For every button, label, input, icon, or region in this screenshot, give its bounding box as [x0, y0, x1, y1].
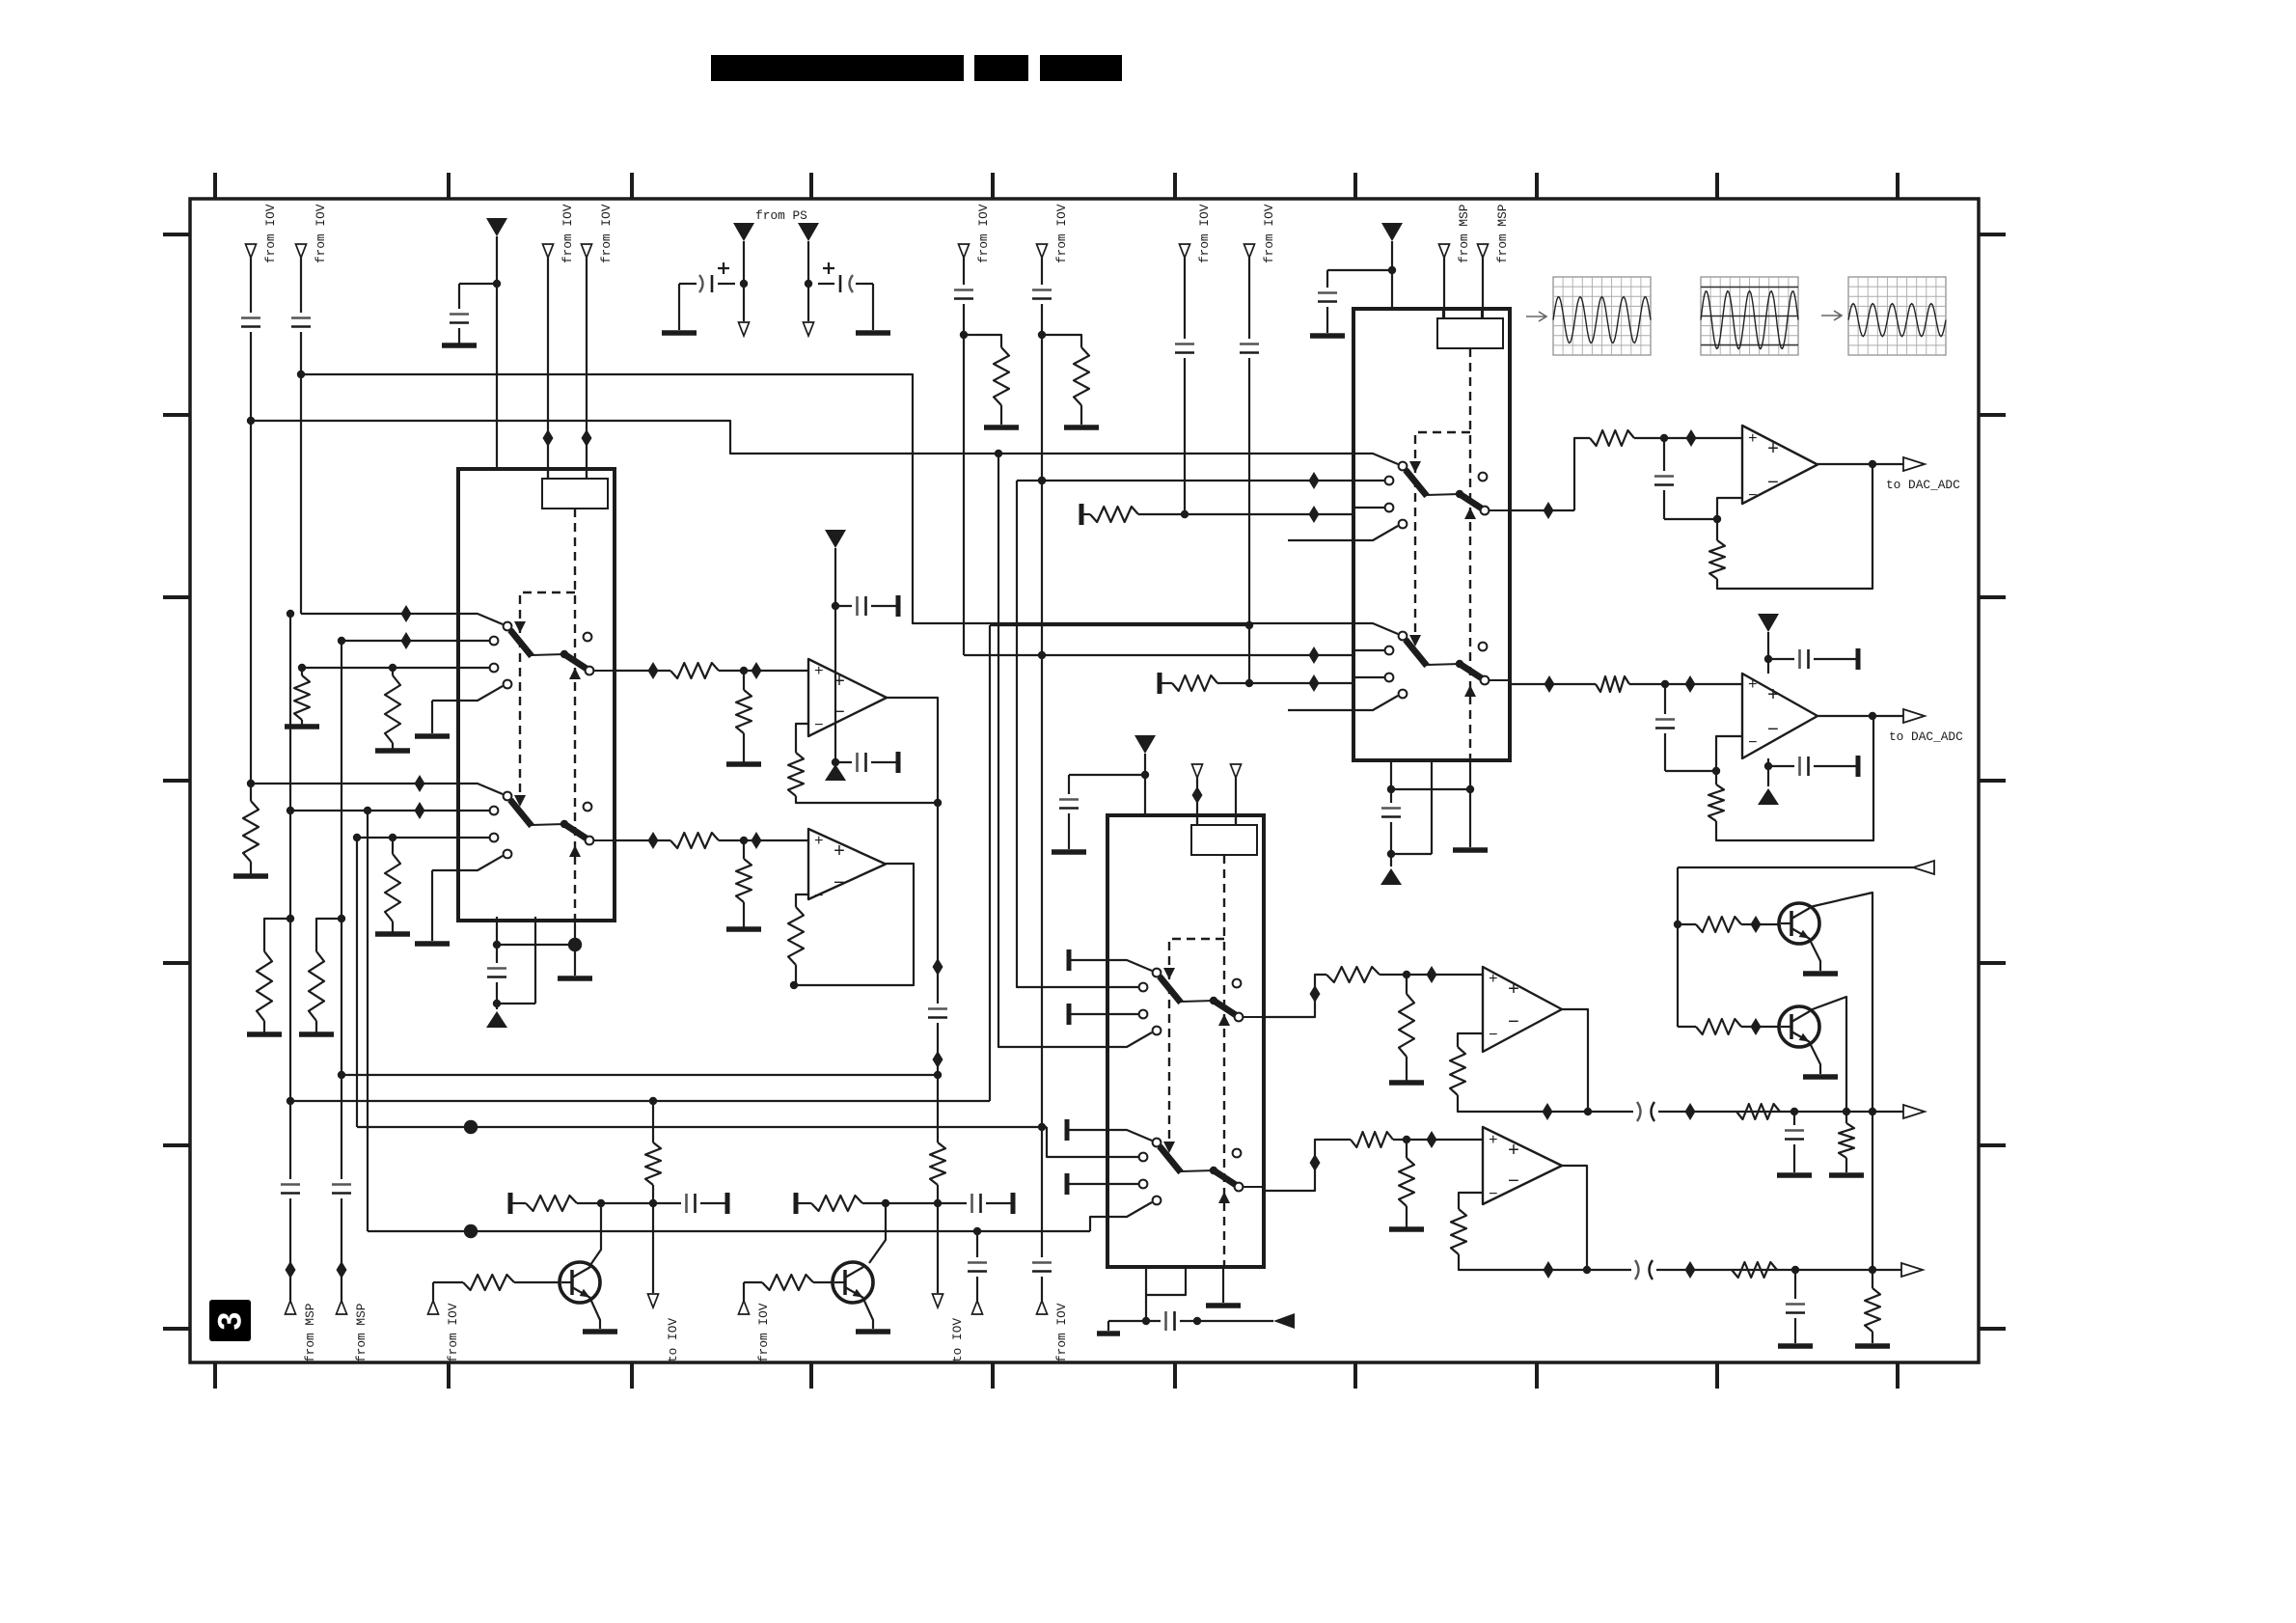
- svg-text:3: 3: [212, 1312, 249, 1331]
- svg-text:from IOV: from IOV: [446, 1303, 460, 1362]
- svg-text:−: −: [1748, 487, 1758, 505]
- svg-text:−: −: [834, 702, 845, 725]
- svg-text:to DAC_ADC: to DAC_ADC: [1886, 478, 1960, 492]
- svg-text:from MSP: from MSP: [303, 1304, 317, 1362]
- svg-text:+: +: [1508, 979, 1519, 1002]
- svg-text:+: +: [1748, 430, 1758, 448]
- svg-text:−: −: [834, 873, 845, 895]
- svg-text:to IOV: to IOV: [666, 1318, 680, 1362]
- svg-text:from IOV: from IOV: [976, 204, 991, 263]
- svg-text:+: +: [814, 833, 824, 850]
- svg-text:−: −: [1767, 720, 1779, 742]
- svg-text:+: +: [1489, 971, 1498, 988]
- svg-text:from IOV: from IOV: [599, 204, 614, 263]
- svg-text:to DAC_ADC: to DAC_ADC: [1889, 729, 1963, 744]
- svg-text:from PS: from PS: [755, 208, 807, 223]
- svg-text:from MSP: from MSP: [354, 1304, 369, 1362]
- svg-text:+: +: [814, 663, 824, 680]
- svg-text:+: +: [834, 672, 845, 694]
- svg-text:+: +: [834, 841, 845, 864]
- svg-text:−: −: [814, 888, 824, 905]
- svg-text:+: +: [1508, 1141, 1519, 1163]
- svg-text:from IOV: from IOV: [756, 1303, 771, 1362]
- svg-text:from IOV: from IOV: [1054, 204, 1069, 263]
- svg-text:+: +: [1767, 439, 1779, 461]
- svg-text:from IOV: from IOV: [314, 204, 328, 263]
- svg-text:−: −: [1489, 1186, 1498, 1203]
- svg-text:from IOV: from IOV: [1054, 1303, 1069, 1362]
- svg-text:−: −: [1748, 734, 1758, 752]
- svg-text:−: −: [1489, 1027, 1498, 1044]
- svg-text:+: +: [1489, 1132, 1498, 1149]
- svg-text:−: −: [1508, 1012, 1519, 1034]
- svg-text:from IOV: from IOV: [1197, 204, 1212, 263]
- svg-text:to IOV: to IOV: [950, 1318, 965, 1362]
- svg-text:+: +: [1767, 685, 1779, 707]
- svg-text:−: −: [1508, 1171, 1519, 1194]
- svg-text:−: −: [1767, 473, 1779, 495]
- svg-text:from IOV: from IOV: [1262, 204, 1276, 263]
- svg-text:from MSP: from MSP: [1457, 205, 1471, 263]
- svg-text:−: −: [814, 717, 824, 734]
- svg-text:from IOV: from IOV: [560, 204, 575, 263]
- svg-text:+: +: [1748, 676, 1758, 694]
- svg-text:from IOV: from IOV: [263, 204, 278, 263]
- svg-text:from MSP: from MSP: [1495, 205, 1510, 263]
